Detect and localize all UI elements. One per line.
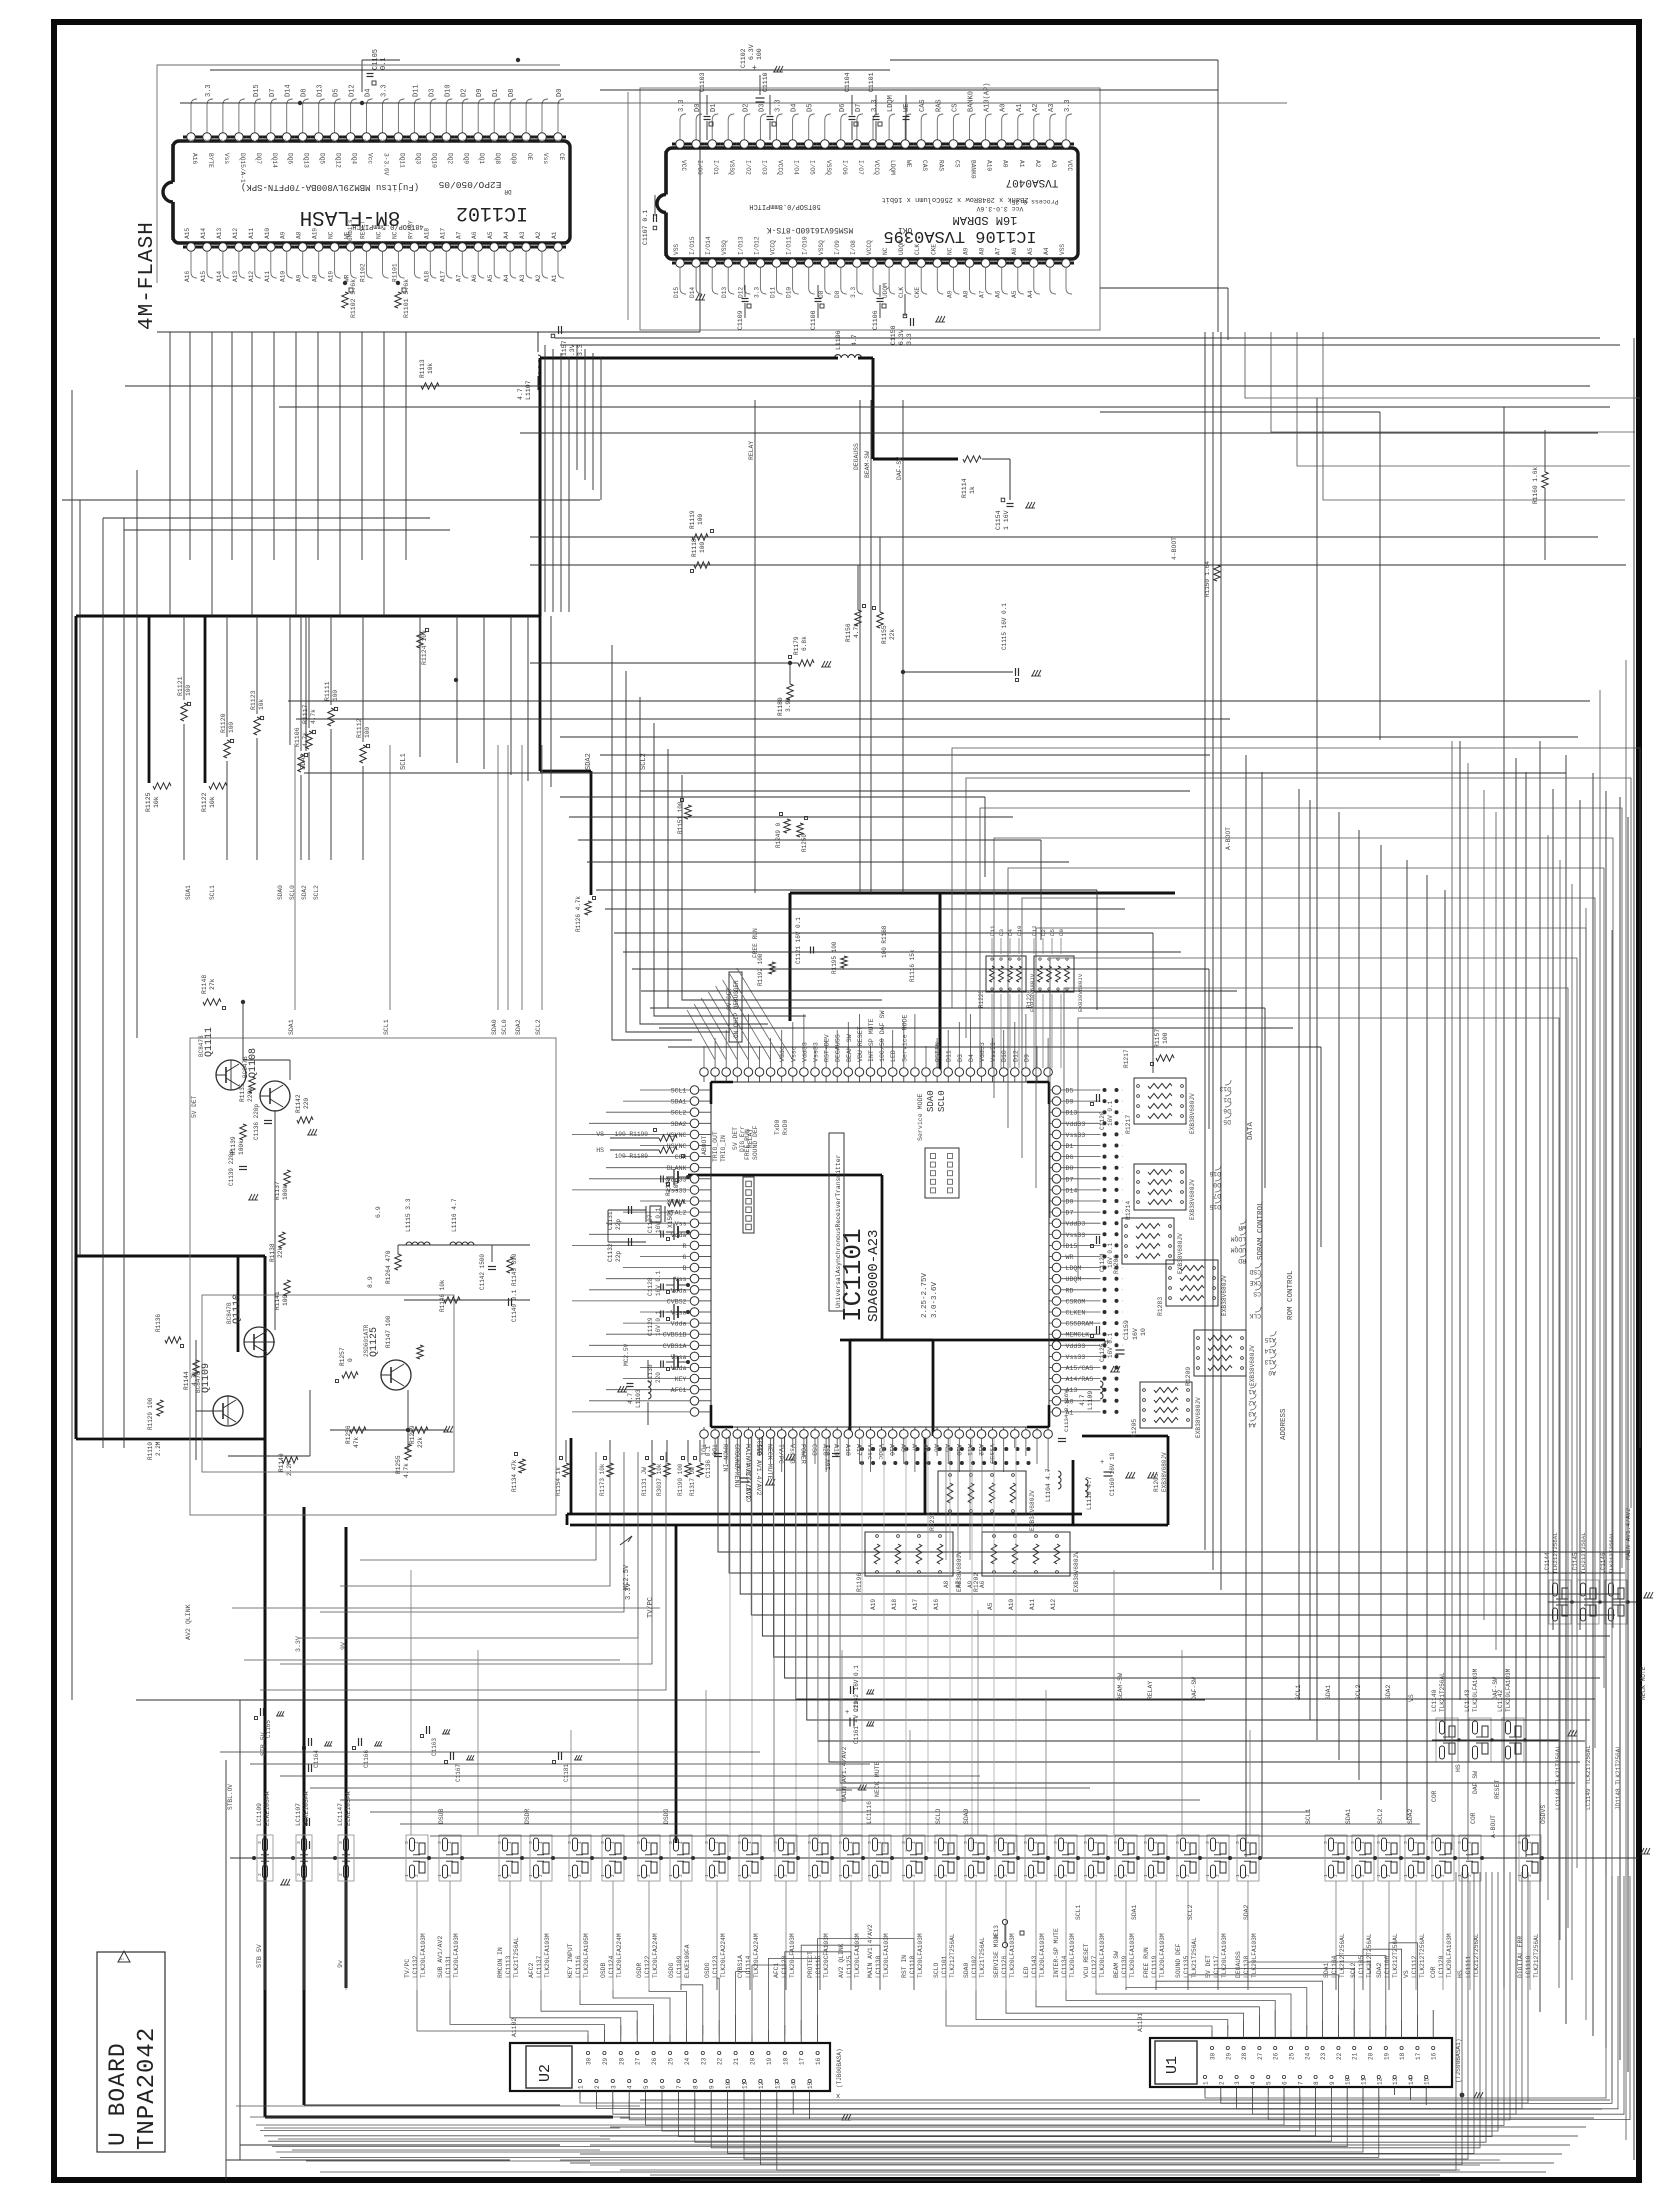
svg-text:WE: WE xyxy=(905,160,912,168)
svg-text:64: 64 xyxy=(459,138,465,144)
svg-text:C1101: C1101 xyxy=(868,72,875,92)
svg-text:DQ15/A-1: DQ15/A-1 xyxy=(239,153,246,183)
svg-text:RD: RD xyxy=(1066,1287,1074,1294)
svg-text:SDA1: SDA1 xyxy=(1131,1904,1138,1920)
svg-text:IC1102: IC1102 xyxy=(456,201,528,224)
svg-text:4: 4 xyxy=(678,1841,684,1844)
svg-text:6: 6 xyxy=(1282,2081,1289,2085)
svg-text:R1154 1k: R1154 1k xyxy=(555,1467,562,1496)
svg-text:220: 220 xyxy=(303,1098,310,1109)
svg-text:A1101: A1101 xyxy=(1137,2013,1144,2032)
svg-text:3.3: 3.3 xyxy=(850,287,857,298)
svg-text:0: 0 xyxy=(347,1358,354,1362)
svg-text:R1135: R1135 xyxy=(239,1083,246,1102)
svg-text:CLK: CLK xyxy=(898,287,905,298)
svg-text:SDA2: SDA2 xyxy=(301,885,308,900)
svg-text:VSSQ: VSSQ xyxy=(818,240,825,255)
svg-text:LDQM: LDQM xyxy=(887,95,895,112)
svg-text:VSS: VSS xyxy=(1059,244,1066,255)
svg-text:A3: A3 xyxy=(1050,160,1057,168)
svg-text:C1159: C1159 xyxy=(1123,1320,1130,1340)
svg-text:A9: A9 xyxy=(946,290,953,298)
svg-text:LC1113: LC1113 xyxy=(505,1955,512,1978)
svg-text:4: 4 xyxy=(1413,1841,1419,1844)
svg-text:LC1116: LC1116 xyxy=(575,1955,582,1978)
svg-text:R1145 390: R1145 390 xyxy=(511,1253,518,1286)
svg-text:16V 0.1: 16V 0.1 xyxy=(1107,1100,1114,1126)
svg-text:A0: A0 xyxy=(1000,104,1008,112)
svg-text:Q1111: Q1111 xyxy=(204,1027,215,1057)
svg-text:BEAM-SW: BEAM-SW xyxy=(864,451,871,478)
svg-text:D13: D13 xyxy=(721,287,728,298)
svg-text:22: 22 xyxy=(1336,2052,1343,2060)
svg-text:ABOOT: ABOOT xyxy=(701,1136,708,1155)
svg-text:D5: D5 xyxy=(807,104,815,112)
svg-text:D1: D1 xyxy=(492,89,500,97)
svg-text:SDA6000-A23: SDA6000-A23 xyxy=(866,1230,882,1322)
svg-text:2.2M: 2.2M xyxy=(155,1441,162,1456)
svg-text:DQ6: DQ6 xyxy=(287,153,294,164)
svg-text:OSDVS: OSDVS xyxy=(1540,1805,1547,1824)
svg-text:DQ8: DQ8 xyxy=(494,153,501,164)
svg-text:I/O11: I/O11 xyxy=(786,236,793,255)
svg-text:C1158: C1158 xyxy=(890,325,897,345)
svg-text:100: 100 xyxy=(699,542,706,553)
svg-text:SCL0: SCL0 xyxy=(501,1019,508,1035)
svg-text:RELAY: RELAY xyxy=(747,1129,754,1148)
svg-text:4: 4 xyxy=(973,1841,979,1844)
svg-text:2: 2 xyxy=(817,1874,823,1877)
svg-text:Vss: Vss xyxy=(675,1276,687,1283)
svg-text:4: 4 xyxy=(848,1841,854,1844)
svg-text:ROM CONTROL: ROM CONTROL xyxy=(1287,1270,1295,1320)
svg-text:SCL2: SCL2 xyxy=(535,1019,542,1035)
svg-text:D2: D2 xyxy=(742,104,750,112)
svg-text:23: 23 xyxy=(700,2057,707,2065)
svg-text:4.7: 4.7 xyxy=(851,334,858,346)
svg-text:VS: VS xyxy=(1403,1970,1410,1978)
svg-text:5: 5 xyxy=(643,2085,650,2089)
svg-text:SDA0: SDA0 xyxy=(277,885,284,900)
svg-text:2: 2 xyxy=(1386,1874,1392,1877)
svg-text:SCL2: SCL2 xyxy=(671,1110,687,1117)
svg-text:27: 27 xyxy=(1257,2052,1264,2060)
svg-text:4: 4 xyxy=(1250,2081,1257,2085)
svg-text:3: 3 xyxy=(1053,1841,1059,1844)
svg-text:DQ9: DQ9 xyxy=(462,153,469,164)
svg-text:79: 79 xyxy=(220,138,226,144)
svg-text:A0: A0 xyxy=(1268,1369,1276,1376)
svg-text:LC1137: LC1137 xyxy=(536,1955,543,1978)
svg-text:Q1110: Q1110 xyxy=(232,1294,243,1324)
svg-text:A18: A18 xyxy=(844,1444,851,1456)
svg-text:20: 20 xyxy=(1368,2052,1375,2060)
svg-text:D10: D10 xyxy=(444,84,452,97)
svg-text:C1128: C1128 xyxy=(647,1277,654,1296)
svg-text:3: 3 xyxy=(1023,1841,1029,1844)
svg-text:2: 2 xyxy=(1033,1874,1039,1877)
svg-text:TV/PC: TV/PC xyxy=(647,1597,655,1618)
svg-text:1: 1 xyxy=(1403,1874,1409,1877)
svg-text:10k: 10k xyxy=(153,796,160,808)
svg-text:D12: D12 xyxy=(349,84,357,97)
svg-text:12: 12 xyxy=(758,2081,765,2089)
svg-text:3.3: 3.3 xyxy=(775,99,783,112)
svg-text:I/O4: I/O4 xyxy=(793,160,800,175)
svg-text:AV2 QLINK: AV2 QLINK xyxy=(838,1943,845,1978)
svg-text:13: 13 xyxy=(774,2081,781,2089)
svg-text:4: 4 xyxy=(783,1841,789,1844)
svg-text:R1317 JW: R1317 JW xyxy=(689,1467,696,1496)
svg-text:A5: A5 xyxy=(1011,290,1018,298)
svg-text:2: 2 xyxy=(678,1874,684,1877)
svg-text:2: 2 xyxy=(1218,2081,1225,2085)
svg-text:A6: A6 xyxy=(471,274,478,282)
svg-text:D6: D6 xyxy=(1066,1154,1074,1161)
svg-text:TLK20LFA103M: TLK20LFA103M xyxy=(420,1933,427,1978)
svg-text:5V DET: 5V DET xyxy=(732,1127,739,1150)
svg-text:28: 28 xyxy=(618,2057,625,2065)
svg-text:1: 1 xyxy=(963,1874,969,1877)
svg-text:D1: D1 xyxy=(1223,1096,1231,1103)
svg-text:100 R1190: 100 R1190 xyxy=(615,1131,649,1138)
svg-text:LC1120: LC1120 xyxy=(1438,1955,1445,1978)
svg-text:A4: A4 xyxy=(1027,290,1034,298)
svg-text:CSROM: CSROM xyxy=(1066,1298,1086,1305)
svg-text:R1214: R1214 xyxy=(1125,1201,1132,1220)
svg-text:A14: A14 xyxy=(200,228,207,239)
svg-text:R1257: R1257 xyxy=(339,1347,346,1366)
svg-text:TLK20LFA105M: TLK20LFA105M xyxy=(583,1933,590,1978)
svg-text:EXB38V680JV: EXB38V680JV xyxy=(1249,1345,1256,1386)
svg-text:A17: A17 xyxy=(439,228,446,239)
svg-text:Vss33: Vss33 xyxy=(1066,1354,1086,1361)
svg-text:EXB38V680JV: EXB38V680JV xyxy=(1189,1093,1196,1134)
svg-text:A1102: A1102 xyxy=(511,2018,518,2037)
svg-text:21: 21 xyxy=(733,2057,740,2065)
svg-text:77: 77 xyxy=(252,138,258,144)
svg-text:I/O15: I/O15 xyxy=(689,236,696,255)
svg-text:I/O12: I/O12 xyxy=(753,236,760,255)
svg-text:STBL.OV: STBL.OV xyxy=(227,1784,234,1810)
svg-text:I/O7: I/O7 xyxy=(857,160,864,175)
svg-text:R1156: R1156 xyxy=(845,623,852,642)
svg-text:RESET: RESET xyxy=(1494,1780,1501,1799)
svg-text:10k: 10k xyxy=(258,699,265,710)
svg-text:SDA1: SDA1 xyxy=(1345,1808,1352,1824)
svg-text:BLANK: BLANK xyxy=(667,1165,687,1172)
svg-text:RSTIN: RSTIN xyxy=(935,1042,942,1062)
svg-text:R1283: R1283 xyxy=(1157,1297,1164,1316)
svg-text:2: 2 xyxy=(1215,1874,1221,1877)
svg-text:BYTE: BYTE xyxy=(207,153,214,168)
svg-text:DEGAUSS: DEGAUSS xyxy=(835,1034,842,1062)
svg-text:A15/CAS: A15/CAS xyxy=(1066,1365,1094,1372)
svg-text:9v: 9v xyxy=(337,1960,344,1968)
svg-text:2: 2 xyxy=(610,1874,616,1877)
svg-text:IC1101: IC1101 xyxy=(838,1228,868,1322)
svg-text:D5: D5 xyxy=(1049,929,1056,936)
svg-text:CLK: CLK xyxy=(1249,1312,1261,1319)
svg-text:63: 63 xyxy=(475,138,481,144)
svg-text:4.7k: 4.7k xyxy=(403,1463,410,1478)
svg-text:CVBS1B: CVBS1B xyxy=(663,1332,687,1339)
svg-text:INT SP MUTE: INT SP MUTE xyxy=(868,1018,875,1062)
svg-text:28: 28 xyxy=(1241,2052,1248,2060)
svg-text:DQ3: DQ3 xyxy=(414,153,421,164)
svg-text:11: 11 xyxy=(1361,2077,1368,2085)
svg-text:3.3: 3.3 xyxy=(906,333,913,345)
svg-text:3: 3 xyxy=(1403,1841,1409,1844)
svg-text:16: 16 xyxy=(815,2057,822,2065)
svg-text:Process 0.35: Process 0.35 xyxy=(1011,198,1058,205)
svg-text:I/O6: I/O6 xyxy=(841,160,848,175)
svg-text:A2: A2 xyxy=(1034,160,1041,168)
svg-text:100: 100 xyxy=(364,727,371,738)
svg-text:4.7: 4.7 xyxy=(1079,1394,1086,1406)
svg-text:24: 24 xyxy=(1304,2052,1311,2060)
svg-text:U BOARD: U BOARD xyxy=(105,2042,131,2146)
svg-text:VCU RESET: VCU RESET xyxy=(1083,1943,1090,1978)
svg-text:OE: OE xyxy=(526,153,533,161)
svg-text:A6: A6 xyxy=(979,1580,986,1588)
svg-text:8: 8 xyxy=(692,2085,699,2089)
svg-text:D0: D0 xyxy=(1213,1181,1221,1188)
svg-text:RxD0: RxD0 xyxy=(782,1119,789,1135)
svg-text:1: 1 xyxy=(636,1874,642,1877)
svg-text:DAF-SW: DAF-SW xyxy=(1492,1677,1499,1700)
svg-text:D15: D15 xyxy=(253,84,261,97)
svg-text:TLK20LFA103M: TLK20LFA103M xyxy=(1446,1933,1453,1978)
svg-text:1: 1 xyxy=(1053,1874,1059,1877)
svg-text:DQ12: DQ12 xyxy=(335,153,342,168)
svg-text:C1135: C1135 xyxy=(757,1437,764,1455)
svg-text:1: 1 xyxy=(1430,1874,1436,1877)
svg-text:COR: COR xyxy=(1470,1812,1477,1824)
svg-text:100k: 100k xyxy=(238,1140,245,1155)
svg-text:22k: 22k xyxy=(889,629,896,640)
svg-text:1: 1 xyxy=(901,1874,907,1877)
svg-text:6.9: 6.9 xyxy=(375,1206,382,1218)
svg-text:BEAM-SW: BEAM-SW xyxy=(1117,1673,1124,1700)
svg-text:SCL1: SCL1 xyxy=(1305,1808,1312,1824)
svg-text:SDA2: SDA2 xyxy=(585,753,593,770)
svg-text:5V DET: 5V DET xyxy=(726,987,733,1010)
svg-text:MEMCLK: MEMCLK xyxy=(1066,1332,1090,1339)
svg-text:1: 1 xyxy=(867,1874,873,1877)
svg-text:R3037 10k: R3037 10k xyxy=(656,1463,663,1496)
svg-text:16Mbits: 16Mbits xyxy=(347,219,354,245)
svg-text:LC1145: LC1145 xyxy=(1572,1552,1579,1574)
svg-text:100: 100 xyxy=(1162,1032,1169,1044)
svg-text:D13: D13 xyxy=(317,84,325,97)
svg-text:NC: NC xyxy=(376,231,383,239)
svg-text:R1101: R1101 xyxy=(391,263,398,282)
svg-text:R1126 4.7k: R1126 4.7k xyxy=(575,896,582,932)
svg-text:3: 3 xyxy=(1376,1841,1382,1844)
svg-text:D11: D11 xyxy=(770,287,777,298)
svg-text:R1249 0: R1249 0 xyxy=(775,822,782,848)
svg-text:TLK20LFA103M: TLK20LFA103M xyxy=(1251,1933,1258,1978)
svg-text:2: 2 xyxy=(414,1874,420,1877)
svg-text:1: 1 xyxy=(838,1874,844,1877)
svg-text:1: 1 xyxy=(1203,2081,1210,2085)
svg-text:D11: D11 xyxy=(412,84,420,97)
svg-text:A11: A11 xyxy=(1029,1599,1036,1610)
svg-text:R1110: R1110 xyxy=(147,1442,154,1460)
svg-text:30: 30 xyxy=(586,2057,593,2065)
svg-text:R1101 5.6k: R1101 5.6k xyxy=(403,279,410,318)
svg-text:A4: A4 xyxy=(503,274,510,282)
svg-text:C1166: C1166 xyxy=(363,1750,370,1768)
svg-text:SDA2: SDA2 xyxy=(1243,1904,1250,1920)
svg-text:D5: D5 xyxy=(1223,1118,1231,1125)
svg-text:WE: WE xyxy=(903,104,911,112)
svg-text:STB 5V: STB 5V xyxy=(256,1944,263,1968)
svg-text:D7: D7 xyxy=(1066,1210,1074,1217)
svg-text:C1161 4V 220: C1161 4V 220 xyxy=(853,1700,860,1744)
svg-text:2: 2 xyxy=(338,1873,344,1876)
svg-text:C1110: C1110 xyxy=(762,72,769,92)
svg-text:ADDRESS: ADDRESS xyxy=(1280,1408,1288,1440)
svg-text:EXB38V680JV: EXB38V680JV xyxy=(1189,1179,1196,1220)
svg-text:A13: A13 xyxy=(1264,1358,1276,1365)
svg-text:LED: LED xyxy=(890,1050,897,1062)
svg-text:TLK20LFA224M: TLK20LFA224M xyxy=(616,1933,623,1978)
svg-text:TV/PC: TV/PC xyxy=(404,1959,411,1978)
svg-text:3: 3 xyxy=(404,1841,410,1844)
svg-text:A10(AP): A10(AP) xyxy=(984,83,992,112)
svg-text:R1102 5.6k: R1102 5.6k xyxy=(350,279,357,318)
svg-text:A4: A4 xyxy=(1248,1421,1256,1428)
svg-text:27k: 27k xyxy=(209,978,216,990)
svg-text:A17: A17 xyxy=(912,1599,919,1610)
svg-text:LC1105: LC1105 xyxy=(1358,1955,1365,1978)
svg-text:D16: D16 xyxy=(1209,1170,1221,1177)
svg-text:DEGAUSS: DEGAUSS xyxy=(1235,1951,1242,1978)
svg-text:JD1148 TLK21T256AL: JD1148 TLK21T256AL xyxy=(1615,1745,1622,1810)
svg-text:1: 1 xyxy=(1083,1874,1089,1877)
svg-text:A18: A18 xyxy=(891,1599,898,1610)
svg-text:17: 17 xyxy=(799,2057,806,2065)
svg-text:DAF-SW: DAF-SW xyxy=(1191,1677,1198,1700)
svg-text:16: 16 xyxy=(1431,2052,1438,2060)
svg-text:EXB38V680JV: EXB38V680JV xyxy=(1161,1452,1168,1492)
svg-text:LC1124: LC1124 xyxy=(608,1955,615,1978)
svg-text:20: 20 xyxy=(750,2057,757,2065)
svg-text:2: 2 xyxy=(447,1874,453,1877)
svg-text:1: 1 xyxy=(1350,1874,1356,1877)
svg-text:SDA2: SDA2 xyxy=(1385,1684,1392,1700)
svg-text:A6: A6 xyxy=(1011,247,1018,255)
svg-text:L1115 3.3: L1115 3.3 xyxy=(405,1198,412,1232)
svg-text:4: 4 xyxy=(911,1841,917,1844)
svg-text:CS5DRAM: CS5DRAM xyxy=(1066,1321,1094,1328)
svg-text:80: 80 xyxy=(204,138,210,144)
svg-text:TLK20LFA103M: TLK20LFA103M xyxy=(1472,1668,1479,1712)
svg-text:LC1112: LC1112 xyxy=(1411,1955,1418,1978)
svg-text:3: 3 xyxy=(338,1841,344,1844)
svg-text:D5: D5 xyxy=(1066,1088,1074,1095)
svg-text:DQ13: DQ13 xyxy=(303,153,310,168)
svg-text:2.25-2.75V: 2.25-2.75V xyxy=(921,1272,929,1318)
svg-text:A6: A6 xyxy=(995,290,1002,298)
svg-text:A0: A0 xyxy=(1002,160,1009,168)
svg-text:CKE: CKE xyxy=(1249,1279,1261,1286)
svg-text:VSSQ: VSSQ xyxy=(825,160,832,175)
svg-text:74: 74 xyxy=(300,138,306,144)
svg-text:SUB AV1/AV2: SUB AV1/AV2 xyxy=(437,1936,444,1978)
svg-text:4: 4 xyxy=(1185,1841,1191,1844)
svg-text:Vssc: Vssc xyxy=(790,1046,797,1062)
svg-text:VSSQ: VSSQ xyxy=(728,160,735,175)
svg-text:3: 3 xyxy=(567,1841,573,1844)
svg-text:71: 71 xyxy=(348,138,354,144)
svg-text:C1167: C1167 xyxy=(455,1764,462,1782)
svg-text:SDA2: SDA2 xyxy=(515,1019,522,1035)
svg-text:4.7k: 4.7k xyxy=(191,1371,198,1386)
svg-text:A1: A1 xyxy=(551,231,558,239)
svg-text:D4: D4 xyxy=(791,104,799,112)
svg-text:ELKE103FA: ELKE103FA xyxy=(264,1791,271,1826)
svg-text:R1209: R1209 xyxy=(1185,1367,1192,1386)
svg-text:C1115 16V 0.1: C1115 16V 0.1 xyxy=(1001,603,1008,650)
svg-text:3: 3 xyxy=(600,1841,606,1844)
svg-text:3: 3 xyxy=(1350,1841,1356,1844)
svg-text:18: 18 xyxy=(1399,2052,1406,2060)
svg-text:14: 14 xyxy=(791,2081,798,2089)
svg-text:EXB38V680JV: EXB38V680JV xyxy=(1195,1397,1202,1438)
svg-text:1: 1 xyxy=(578,2085,585,2089)
svg-text:R1114: R1114 xyxy=(961,478,968,498)
svg-text:3.3: 3.3 xyxy=(753,287,760,298)
svg-text:COR: COR xyxy=(1430,1966,1437,1978)
svg-text:CKE: CKE xyxy=(914,287,921,298)
svg-text:Vdd33: Vdd33 xyxy=(1066,1343,1086,1350)
svg-text:LC1127: LC1127 xyxy=(1091,1955,1098,1978)
svg-text:16V 0.1: 16V 0.1 xyxy=(1107,1332,1114,1358)
svg-text:R1256: R1256 xyxy=(345,1425,352,1444)
svg-text:A10: A10 xyxy=(280,271,287,282)
svg-text:R1123: R1123 xyxy=(250,690,257,710)
svg-text:D4: D4 xyxy=(968,1054,975,1062)
svg-text:D11: D11 xyxy=(946,1050,953,1062)
svg-text:2: 2 xyxy=(943,1874,949,1877)
svg-text:3: 3 xyxy=(1430,1841,1436,1844)
svg-text:R1112: R1112 xyxy=(356,718,363,738)
svg-text:NC: NC xyxy=(328,231,335,239)
svg-text:R1155: R1155 xyxy=(881,625,888,644)
svg-text:RMCON IN: RMCON IN xyxy=(497,1947,504,1978)
svg-text:D9: D9 xyxy=(1058,929,1065,936)
svg-text:LC1102: LC1102 xyxy=(971,1955,978,1978)
svg-text:D0: D0 xyxy=(694,104,702,112)
svg-text:3: 3 xyxy=(1205,1841,1211,1844)
svg-text:SCL2: SCL2 xyxy=(313,885,320,900)
svg-text:9V: 9V xyxy=(340,1642,347,1650)
svg-text:VSSQ: VSSQ xyxy=(721,240,728,255)
svg-text:2: 2 xyxy=(1003,1874,1009,1877)
svg-text:DIG Err: DIG Err xyxy=(739,1126,746,1152)
svg-text:A1: A1 xyxy=(551,274,558,282)
svg-text:D2: D2 xyxy=(460,89,468,97)
svg-text:3: 3 xyxy=(704,1841,710,1844)
svg-text:14: 14 xyxy=(1408,2077,1415,2085)
svg-text:LC1122: LC1122 xyxy=(644,1955,651,1978)
svg-text:HS: HS xyxy=(596,1147,604,1154)
svg-text:3: 3 xyxy=(933,1841,939,1844)
svg-text:HS: HS xyxy=(1457,1970,1464,1978)
